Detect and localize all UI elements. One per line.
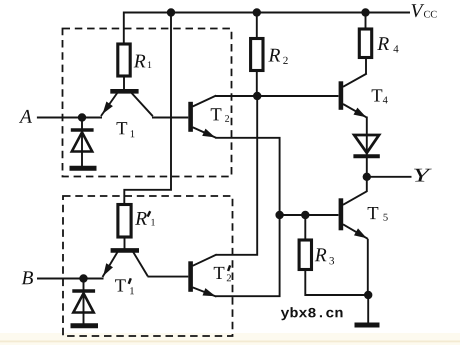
label R1 — [134, 55, 146, 68]
label B — [22, 271, 33, 284]
label R3 — [315, 248, 327, 261]
label R4 — [377, 37, 389, 50]
label T4 — [372, 89, 383, 101]
label T1 — [117, 122, 128, 134]
ground at diode DA — [70, 166, 97, 171]
node: output Y junction — [363, 173, 371, 181]
wire: Vcc to R2 — [256, 13, 258, 39]
wire: T2' emitter up to T5 base node — [216, 215, 280, 296]
node: ground junction — [364, 291, 372, 299]
resistor R1 — [118, 44, 130, 76]
wire: junction to R3 — [304, 215, 306, 240]
label T2' — [214, 267, 225, 279]
transistor T2' (phase splitter, gate 2) — [188, 261, 193, 292]
resistor R1' — [118, 205, 131, 238]
label Y — [414, 169, 432, 182]
diode DA (input clamp, A) — [81, 118, 83, 167]
wire: Vcc branch down to R1' — [124, 13, 171, 205]
label T1' — [115, 279, 126, 291]
wire: R1 to T1 base — [123, 76, 125, 91]
resistor R4 — [359, 29, 371, 58]
wire: T5 base rail — [280, 214, 339, 216]
wire: Vcc rail — [124, 12, 410, 14]
transistor T4 (output driver) — [339, 81, 344, 110]
transistor T2 (phase splitter, gate 1) — [188, 102, 193, 132]
wire: Vcc to R4 — [365, 13, 367, 30]
node: A input junction — [78, 113, 86, 121]
node: Vcc junction to gate-2 branch — [167, 8, 175, 16]
wire: input B — [37, 278, 104, 280]
transistor T1' (multi-emitter input, gate 2) — [111, 248, 139, 253]
label Vcc — [412, 4, 425, 17]
wire: R4 to T4 collector — [365, 58, 367, 75]
label A — [19, 110, 32, 123]
label R1' — [135, 212, 147, 225]
node: Vcc junction to R2 — [253, 8, 261, 16]
wire: T4 emitter to diode — [366, 117, 368, 178]
resistor R2 — [251, 39, 263, 71]
label R2 — [268, 49, 280, 62]
wire: input A — [37, 117, 102, 119]
label T2 — [211, 108, 222, 120]
watermark ybx8.cn — [281, 307, 343, 320]
wire: T2' collector up to R2 node — [216, 96, 257, 255]
wire: T5 emitter to ground node — [367, 239, 369, 295]
node: emitters junction at T5 base — [275, 211, 283, 219]
wire: T2 collector / R2 node / T4 base — [216, 95, 339, 97]
transistor T1 (multi-emitter input, gate 1) — [110, 89, 138, 94]
diode DB (input clamp, B) — [83, 279, 85, 324]
wire: Vcc corner down to R1 — [123, 12, 125, 45]
node: Vcc junction to R4 — [361, 8, 369, 16]
dashed box gate 2 (input stage B) — [63, 196, 233, 336]
dashed box gate 1 (input stage A) — [63, 29, 232, 177]
ground at diode DB — [71, 323, 99, 328]
diode D (level shift) — [354, 135, 379, 153]
wire: R2 to junction — [256, 71, 258, 97]
node: B input junction — [79, 274, 87, 282]
node: R2 - T2 collector - T4 base junction — [253, 92, 261, 100]
node: R3 junction — [301, 211, 309, 219]
wire: Y node down to T5 collector — [366, 177, 368, 192]
transistor T5 (output pull-down) — [339, 198, 344, 230]
ground (main) — [355, 323, 380, 328]
wire: R1' to T1' base — [124, 237, 126, 251]
wire: R3 to ground node — [305, 270, 368, 296]
resistor R3 — [299, 240, 311, 270]
wire: output Y — [367, 176, 412, 178]
wire: T1 collector to T2 base — [152, 117, 188, 119]
wire: ground lead — [367, 295, 369, 323]
label T5 — [368, 207, 379, 219]
wire: T1' collector to T2' base — [148, 276, 189, 278]
wire: T2 emitter to T5 base node — [215, 138, 279, 215]
